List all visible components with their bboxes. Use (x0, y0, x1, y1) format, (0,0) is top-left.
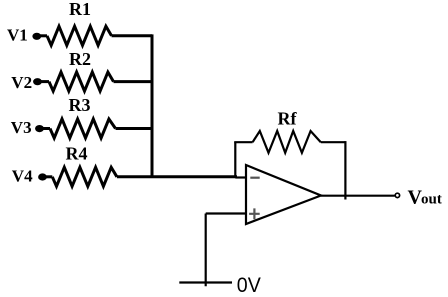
svg-text:R1: R1 (69, 0, 91, 19)
op-amp plus sign (249, 208, 260, 219)
svg-text:V1: V1 (7, 25, 28, 44)
wire op-amp output (321, 195, 395, 197)
wire vertical to ground (205, 214, 207, 287)
output terminal circle (395, 193, 399, 197)
resistor Rf (253, 131, 321, 153)
svg-text:R4: R4 (66, 143, 88, 163)
resistor R1 (47, 26, 112, 45)
resistor R2 (49, 72, 114, 91)
wire V3 stub (40, 127, 51, 130)
svg-text:out: out (421, 192, 442, 208)
svg-text:R3: R3 (69, 95, 91, 115)
wire R1 to bus (112, 34, 153, 37)
svg-text:Rf: Rf (278, 108, 298, 128)
wire V1 stub (37, 34, 47, 37)
feedback top-right wire (321, 141, 346, 143)
svg-text:0V: 0V (237, 273, 262, 297)
resistor R3 (50, 119, 116, 138)
feedback tap vertical wire (234, 142, 236, 177)
terminal dot V2 (33, 78, 42, 85)
svg-text:R2: R2 (69, 49, 91, 69)
op-amp minus sign (250, 177, 259, 179)
terminal dot V1 (32, 33, 41, 40)
ground 0V rail (179, 281, 232, 283)
terminal dot V3 (35, 125, 44, 132)
wire R4 to op-amp inverting input (117, 175, 237, 178)
bus vertical wire (151, 34, 154, 178)
wire V2 stub (38, 80, 50, 83)
op-amp U1 (246, 165, 321, 224)
feedback top-left wire (234, 141, 252, 143)
wire R2 to bus (114, 80, 153, 83)
wire R3 to bus (116, 127, 153, 130)
wire V4 stub (43, 175, 53, 178)
feedback right vertical wire to output (344, 141, 346, 199)
svg-text:V3: V3 (11, 118, 32, 137)
wire non-inverting input (206, 212, 246, 214)
resistor R4 (52, 167, 117, 186)
terminal dot V4 (38, 173, 47, 180)
svg-text:V2: V2 (11, 73, 32, 92)
svg-text:V4: V4 (12, 166, 33, 185)
